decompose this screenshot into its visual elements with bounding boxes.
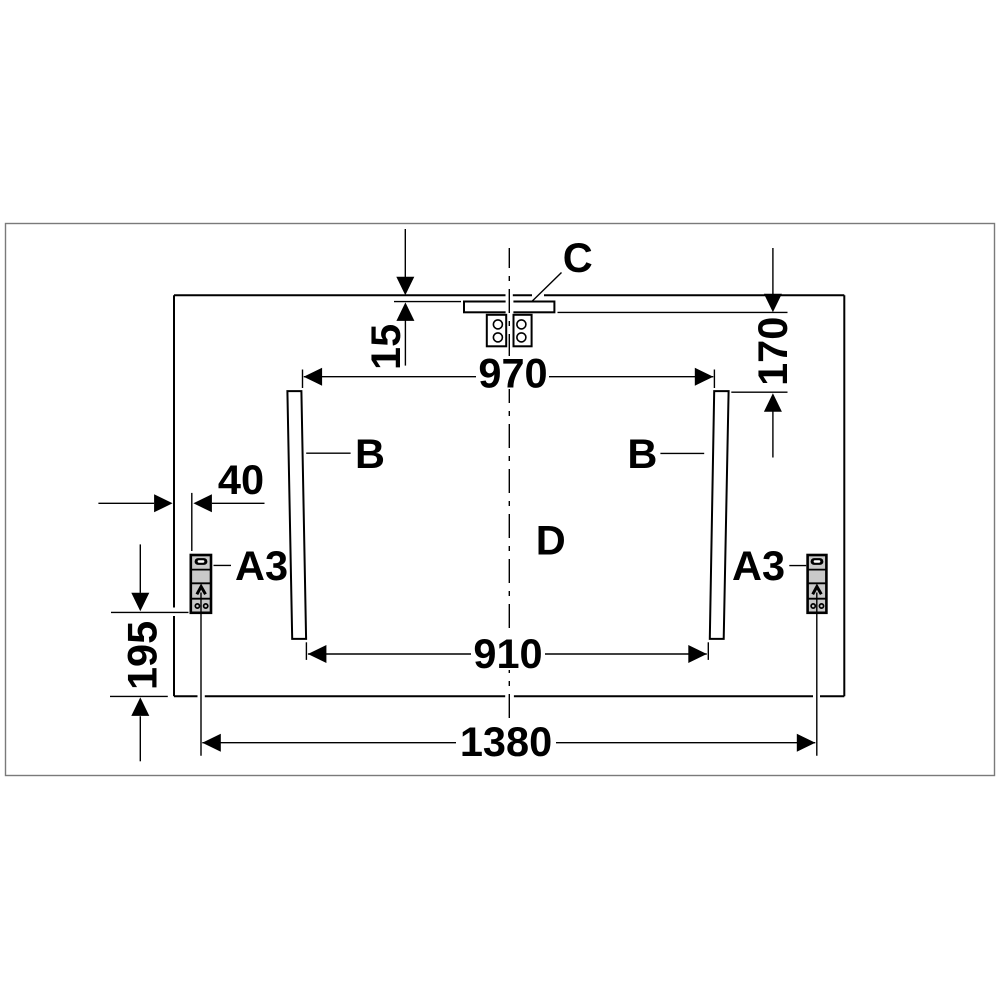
svg-text:B: B: [627, 430, 657, 477]
svg-text:C: C: [563, 234, 593, 281]
svg-text:910: 910: [473, 630, 542, 677]
svg-text:A3: A3: [235, 542, 288, 589]
svg-text:B: B: [355, 430, 385, 477]
svg-text:970: 970: [478, 349, 547, 396]
svg-text:40: 40: [218, 456, 264, 503]
svg-text:A3: A3: [732, 542, 785, 589]
svg-text:170: 170: [749, 317, 796, 386]
svg-text:15: 15: [362, 324, 409, 370]
svg-text:195: 195: [119, 621, 166, 690]
svg-text:1380: 1380: [460, 718, 552, 765]
svg-text:D: D: [536, 517, 566, 564]
